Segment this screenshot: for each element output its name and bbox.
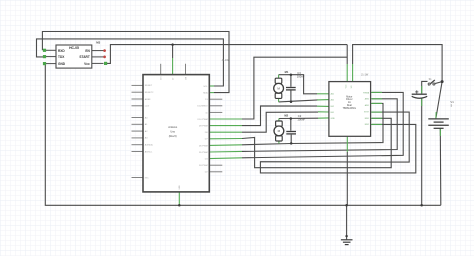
svg-text:AREF: AREF [145,98,151,101]
svg-text:D5 PWM: D5 PWM [199,152,208,154]
svg-text:STBY: STBY [364,111,370,113]
svg-text:(Rev3): (Rev3) [169,134,177,138]
svg-text:TDX: TDX [58,55,65,59]
svg-text:START: START [79,55,89,59]
svg-text:RESET2: RESET2 [145,92,154,94]
svg-text:100nF: 100nF [297,74,305,78]
svg-text:A01: A01 [331,93,334,96]
svg-text:M3: M3 [96,41,100,45]
svg-text:J1-1W: J1-1W [222,59,230,62]
svg-text:RXD: RXD [58,49,65,53]
svg-text:BIN1: BIN1 [365,118,369,120]
svg-text:RESET: RESET [145,85,153,87]
svg-text:B02: B02 [331,106,334,108]
svg-text:TB6612FNG: TB6612FNG [343,107,357,110]
svg-text:EN: EN [85,49,90,53]
svg-text:SDA: SDA [203,92,208,95]
svg-text:3V3: 3V3 [161,77,163,80]
svg-text:GND: GND [58,62,66,66]
svg-text:D9 PWM: D9 PWM [199,126,208,128]
svg-text:N/C: N/C [145,177,149,179]
svg-text:AIN2: AIN2 [365,98,369,101]
svg-text:Vcc: Vcc [84,62,90,66]
svg-text:PWMA: PWMA [363,91,370,94]
svg-text:D6 PWM: D6 PWM [199,145,208,147]
svg-text:A4/SDA: A4/SDA [145,144,153,147]
svg-text:GND: GND [331,118,336,120]
svg-text:D3 PWM: D3 PWM [199,165,208,167]
svg-text:C3: C3 [297,71,301,75]
svg-text:ioref: ioref [145,105,150,108]
svg-text:M1: M1 [285,70,289,74]
svg-text:Uno: Uno [170,129,175,133]
svg-text:A5/SCL: A5/SCL [145,150,153,153]
svg-text:Arduino: Arduino [168,125,177,129]
svg-text:A02: A02 [331,99,334,102]
svg-text:D12/MISO: D12/MISO [197,106,208,108]
svg-text:D10 PWM: D10 PWM [198,119,208,121]
svg-text:J1-1W: J1-1W [361,73,369,76]
svg-text:HC-05: HC-05 [69,46,79,50]
svg-text:GND: GND [179,185,181,190]
svg-text:BIN2: BIN2 [365,124,369,126]
svg-text:M2: M2 [284,113,288,117]
svg-text:100nF: 100nF [297,117,305,121]
svg-text:B01: B01 [331,112,334,114]
svg-text:AIN1: AIN1 [365,104,369,107]
